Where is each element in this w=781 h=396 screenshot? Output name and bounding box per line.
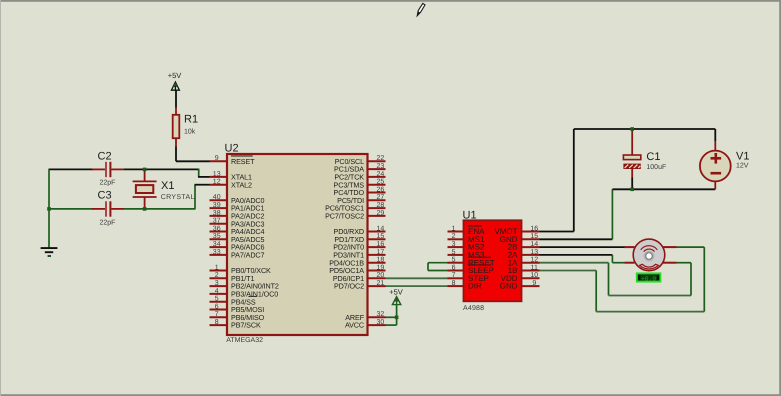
U2 pin 21 PD7/OC2	[368, 285, 386, 287]
svg-text:8: 8	[452, 280, 456, 287]
svg-text:RESET: RESET	[231, 157, 255, 166]
wire C2 row right to XTAL1 jog (black)	[124, 168, 199, 170]
svg-text:22: 22	[377, 155, 385, 162]
svg-text:29: 29	[377, 210, 385, 217]
svg-text:ATMEGA32: ATMEGA32	[226, 337, 263, 344]
wire 2A jog down (green)	[611, 255, 613, 263]
svg-text:15: 15	[530, 233, 538, 240]
U2 pin 25 PC3/TMS	[368, 184, 386, 186]
svg-text:7: 7	[215, 311, 219, 318]
U2 pin 3 PB2/AIN0/INT2	[210, 285, 228, 287]
node junction left rail / C3	[47, 207, 51, 211]
U1 pin 11 1B	[522, 270, 540, 272]
wire bottom rail (black)	[612, 188, 715, 190]
U2 pin 17 PD3/INT1	[368, 254, 386, 256]
svg-text:2: 2	[215, 272, 219, 279]
svg-text:5: 5	[452, 249, 456, 256]
U2 pin 28 PC6/TOSC1	[368, 207, 386, 209]
wire 1B up to motor right-top (green)	[703, 247, 705, 312]
U2 pin 30 AVCC	[368, 324, 386, 326]
U1 pin 13 2A	[522, 254, 540, 256]
svg-text:30: 30	[377, 319, 385, 326]
U2 pin 7 PB6/MISO	[210, 316, 228, 318]
wire C3 row right (green)	[124, 208, 196, 210]
wire C3 row left (green)	[49, 208, 93, 210]
svg-text:24: 24	[377, 171, 385, 178]
svg-text:12: 12	[530, 257, 538, 264]
U2 pin 14 PD0/RXD	[368, 231, 386, 233]
svg-text:36: 36	[213, 225, 221, 232]
U2 pin 4 PB3/AIN1/OC0	[210, 293, 228, 295]
wire top rail (black)	[574, 128, 716, 130]
svg-text:12V: 12V	[736, 162, 749, 169]
svg-text:15: 15	[377, 233, 385, 240]
U2 pin 16 PD2/INT0	[368, 246, 386, 248]
svg-text:38: 38	[213, 210, 221, 217]
wire XTAL2 into pin 12 (black)	[195, 184, 210, 186]
node junction C1 top	[630, 127, 634, 131]
capacitor C3	[92, 208, 105, 210]
U2 pin 23 PC1/SDA	[368, 168, 386, 170]
wire AVCC row (green)	[386, 324, 397, 326]
svg-text:14: 14	[377, 225, 385, 232]
svg-text:35: 35	[213, 233, 221, 240]
svg-text:6: 6	[215, 303, 219, 310]
svg-text:3: 3	[452, 241, 456, 248]
svg-text:AVCC: AVCC	[345, 321, 364, 330]
node junction C1 bottom	[630, 188, 634, 192]
wire 1B down (green)	[595, 271, 597, 312]
wire XTAL2 vertical jog (green)	[194, 185, 196, 209]
U2 pin 27 PC5/TDI	[368, 199, 386, 201]
U1 pin 10 VDD	[522, 277, 540, 279]
wire left rail vertical (green)	[48, 169, 50, 248]
U2 pin 2 PB1/T1	[210, 277, 228, 279]
wire XTAL1 vertical jog (green)	[198, 169, 200, 177]
battery V1 12V	[714, 129, 716, 141]
svg-text:23: 23	[377, 163, 385, 170]
U2 pin 20 PD6/ICP1	[368, 277, 386, 279]
op IC U1 A4988 body	[464, 220, 522, 301]
svg-text:U2: U2	[225, 143, 239, 155]
node junction C3/X1	[143, 207, 147, 211]
wire 1B row (green)	[540, 270, 597, 272]
U2 pin 38 PA2/ADC2	[210, 215, 228, 217]
U1 pin 4 MS3	[448, 254, 464, 256]
svg-text:5: 5	[215, 296, 219, 303]
svg-text:21: 21	[377, 280, 385, 287]
wire VMOT vertical up (black)	[573, 129, 575, 232]
svg-text:+5V: +5V	[168, 71, 182, 80]
U2 pin 5 PB4/SS	[210, 301, 228, 303]
wire GND vertical (green)	[611, 189, 613, 239]
node junction C2/X1	[143, 168, 147, 172]
wire U1 RESET-SLEEP tie top	[428, 262, 448, 264]
wire VMOT row (black)	[540, 231, 574, 233]
U2 pin 33 PA7/ADC7	[210, 254, 228, 256]
svg-text:9: 9	[532, 280, 536, 287]
U1 pin 3 MS2	[448, 246, 464, 248]
svg-text:9: 9	[215, 155, 219, 162]
U1 pin 1 ENA	[448, 231, 464, 233]
wire +5V down to AVCC (green)	[396, 305, 398, 326]
capacitor C1 100uF	[631, 129, 633, 155]
capacitor C2	[92, 168, 105, 170]
svg-text:C3: C3	[98, 189, 112, 201]
U1 pin 2 MS1	[448, 238, 464, 240]
motor top arcs	[641, 246, 658, 250]
svg-text:1: 1	[215, 264, 219, 271]
wire C2 row left (black)	[49, 168, 94, 170]
motor pin right-top	[663, 246, 677, 248]
U1 pin 9 GND	[522, 285, 540, 287]
U2 pin 12 XTAL2	[210, 184, 228, 186]
motor pin right-bottom	[663, 262, 677, 264]
svg-text:PB7/SCK: PB7/SCK	[231, 321, 261, 330]
motor step display	[637, 273, 661, 281]
svg-text:22pF: 22pF	[100, 180, 116, 187]
U2 pin 34 PA6/ADC6	[210, 246, 228, 248]
svg-text:33: 33	[213, 249, 221, 256]
cursor pencil	[417, 3, 425, 15]
wire R1 to RESET (black)	[175, 147, 177, 162]
svg-text:GND: GND	[500, 282, 518, 291]
svg-text:18: 18	[377, 257, 385, 264]
svg-text:PA7/ADC7: PA7/ADC7	[231, 251, 265, 260]
U2 pin 8 PB7/SCK	[210, 324, 228, 326]
wire 2B to motor left-top (black)	[540, 246, 625, 248]
U2 pin 40 PA0/ADC0	[210, 199, 228, 201]
svg-text:39: 39	[213, 202, 221, 209]
U1 pin 16 VMOT	[522, 231, 540, 233]
wire 1A bottom run (green)	[609, 295, 692, 297]
svg-text:PC7/TOSC2: PC7/TOSC2	[325, 212, 364, 221]
svg-text:20: 20	[377, 272, 385, 279]
svg-text:14: 14	[530, 241, 538, 248]
svg-text:7: 7	[452, 272, 456, 279]
U2 pin 29 PC7/TOSC2	[368, 215, 386, 217]
U2 pin 24 PC2/TCK	[368, 176, 386, 178]
U1 pin 6 SLEEP	[448, 270, 464, 272]
wire DIR net PD7 to U1 pin8	[386, 285, 448, 287]
op IC U2 ATMEGA32 body	[227, 154, 368, 335]
svg-text:10: 10	[530, 272, 538, 279]
svg-text:PD7/OC2: PD7/OC2	[334, 282, 364, 291]
svg-text:34: 34	[213, 241, 221, 248]
wire U1 RESET-SLEEP tie bottom	[428, 270, 448, 272]
U1 pin 8 DIR	[448, 285, 464, 287]
svg-text:4: 4	[215, 288, 219, 295]
svg-text:C2: C2	[98, 151, 112, 163]
U2 pin 39 PA1/ADC1	[210, 207, 228, 209]
svg-text:XTAL2: XTAL2	[231, 180, 252, 189]
wire 1A into motor right-bottom (green)	[677, 262, 692, 264]
U2 pin 15 PD1/TXD	[368, 238, 386, 240]
U2 pin 32 AREF	[368, 316, 386, 318]
svg-text:22pF: 22pF	[100, 219, 116, 226]
svg-text:27: 27	[377, 194, 385, 201]
U1 pin 15 GND	[522, 238, 540, 240]
motor pin left-bottom	[625, 262, 635, 264]
svg-text:16: 16	[530, 225, 538, 232]
crystal X1	[144, 169, 146, 181]
U2 pin 9 RESET	[210, 160, 228, 162]
svg-text:10k: 10k	[184, 128, 196, 136]
svg-text:11: 11	[531, 264, 538, 271]
U1 pin 14 2B	[522, 246, 540, 248]
svg-text:3: 3	[215, 280, 219, 287]
U2 pin 6 PB5/MOSI	[210, 309, 228, 311]
wire 1A row (green)	[540, 262, 609, 264]
svg-text:V1: V1	[736, 151, 749, 163]
svg-text:X1: X1	[161, 180, 174, 192]
frame bottom edge	[0, 394, 781, 396]
svg-text:+0.0: +0.0	[641, 276, 656, 283]
svg-text:8: 8	[215, 319, 219, 326]
wire 1B into motor right-top (green)	[677, 246, 705, 248]
U2 pin 1 PB0/T0/XCK	[210, 270, 228, 272]
motor bottom arcs	[640, 264, 659, 269]
wire 2A row (black)	[540, 254, 613, 256]
wire U1 GND row 15 (black)	[540, 238, 613, 240]
svg-text:37: 37	[213, 218, 221, 225]
svg-text:13: 13	[530, 249, 538, 256]
U2 pin 18 PD4/OC1B	[368, 262, 386, 264]
motor pin left-top	[625, 246, 635, 248]
wire 1A down (green)	[608, 263, 610, 296]
svg-text:17: 17	[377, 249, 385, 256]
U2 pin 13 XTAL1	[210, 176, 228, 178]
wire 2A into motor left-bottom (green)	[612, 262, 624, 264]
U2 pin 36 PA4/ADC4	[210, 231, 228, 233]
node junction AREF/+5V	[395, 316, 399, 320]
svg-text:DIR: DIR	[468, 282, 482, 291]
U1 pin 7 STEP	[448, 277, 464, 279]
U2 pin 26 PC4/TDO	[368, 192, 386, 194]
U1 pin 5 RESET	[448, 262, 464, 264]
U2 pin 22 PC0/SCL	[368, 160, 386, 162]
svg-text:C1: C1	[646, 151, 660, 163]
frame right edge	[779, 0, 781, 396]
U1 pin 12 1A	[522, 262, 540, 264]
U2 pin 37 PA3/ADC3	[210, 223, 228, 225]
wire U1 RESET-SLEEP tie vertical	[427, 263, 429, 271]
motor stepper body	[633, 239, 665, 271]
svg-text:100uF: 100uF	[646, 164, 666, 171]
svg-text:6: 6	[452, 264, 456, 271]
svg-text:26: 26	[377, 186, 385, 193]
svg-text:1: 1	[452, 225, 456, 232]
svg-text:40: 40	[213, 194, 221, 201]
U2 pin 35 PA5/ADC5	[210, 238, 228, 240]
wire 1B bottom run (green)	[596, 311, 704, 313]
svg-text:U1: U1	[463, 210, 477, 222]
svg-text:R1: R1	[184, 114, 198, 126]
frame left edge	[0, 0, 1, 396]
svg-text:12: 12	[213, 179, 221, 186]
U2 pin 19 PD5/OC1A	[368, 270, 386, 272]
wire +5V to R1 (black)	[175, 90, 177, 108]
svg-text:5: 5	[452, 257, 456, 264]
svg-text:25: 25	[377, 179, 385, 186]
wire STEP net PD6 to U1 pin7	[386, 277, 448, 279]
svg-text:19: 19	[377, 264, 385, 271]
svg-text:2: 2	[452, 233, 456, 240]
svg-text:CRYSTAL: CRYSTAL	[161, 194, 195, 201]
svg-text:32: 32	[377, 311, 385, 318]
svg-text:16: 16	[377, 241, 385, 248]
wire AREF row (green)	[386, 316, 397, 318]
svg-text:28: 28	[377, 202, 385, 209]
resistor R1 10k	[175, 108, 177, 116]
frame top edge	[0, 0, 781, 2]
wire 1A up to motor right-bottom (green)	[690, 263, 692, 296]
ground	[41, 247, 58, 249]
svg-text:13: 13	[213, 171, 221, 178]
svg-text:+5V: +5V	[389, 288, 403, 297]
wire XTAL1 into pin 13 (black)	[198, 176, 210, 178]
svg-text:A4988: A4988	[463, 305, 484, 312]
